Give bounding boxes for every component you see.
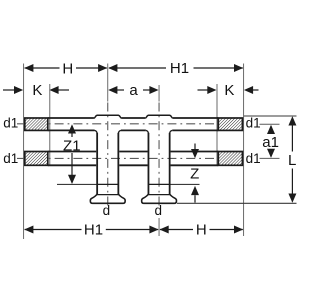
svg-text:H1: H1 <box>170 60 189 77</box>
svg-text:d: d <box>103 203 111 218</box>
svg-text:d: d <box>155 203 163 218</box>
svg-text:a1: a1 <box>262 134 279 151</box>
svg-text:H: H <box>62 60 73 77</box>
svg-text:H: H <box>196 221 207 238</box>
svg-text:d1: d1 <box>246 116 261 131</box>
svg-text:K: K <box>32 82 42 99</box>
svg-text:a: a <box>129 82 138 99</box>
svg-text:d1: d1 <box>246 151 261 166</box>
svg-text:d1: d1 <box>3 116 18 131</box>
svg-text:Z: Z <box>190 165 199 182</box>
svg-text:K: K <box>224 82 234 99</box>
svg-text:Z1: Z1 <box>63 137 81 154</box>
svg-text:d1: d1 <box>3 151 18 166</box>
svg-text:L: L <box>288 152 296 169</box>
svg-text:H1: H1 <box>84 221 103 238</box>
